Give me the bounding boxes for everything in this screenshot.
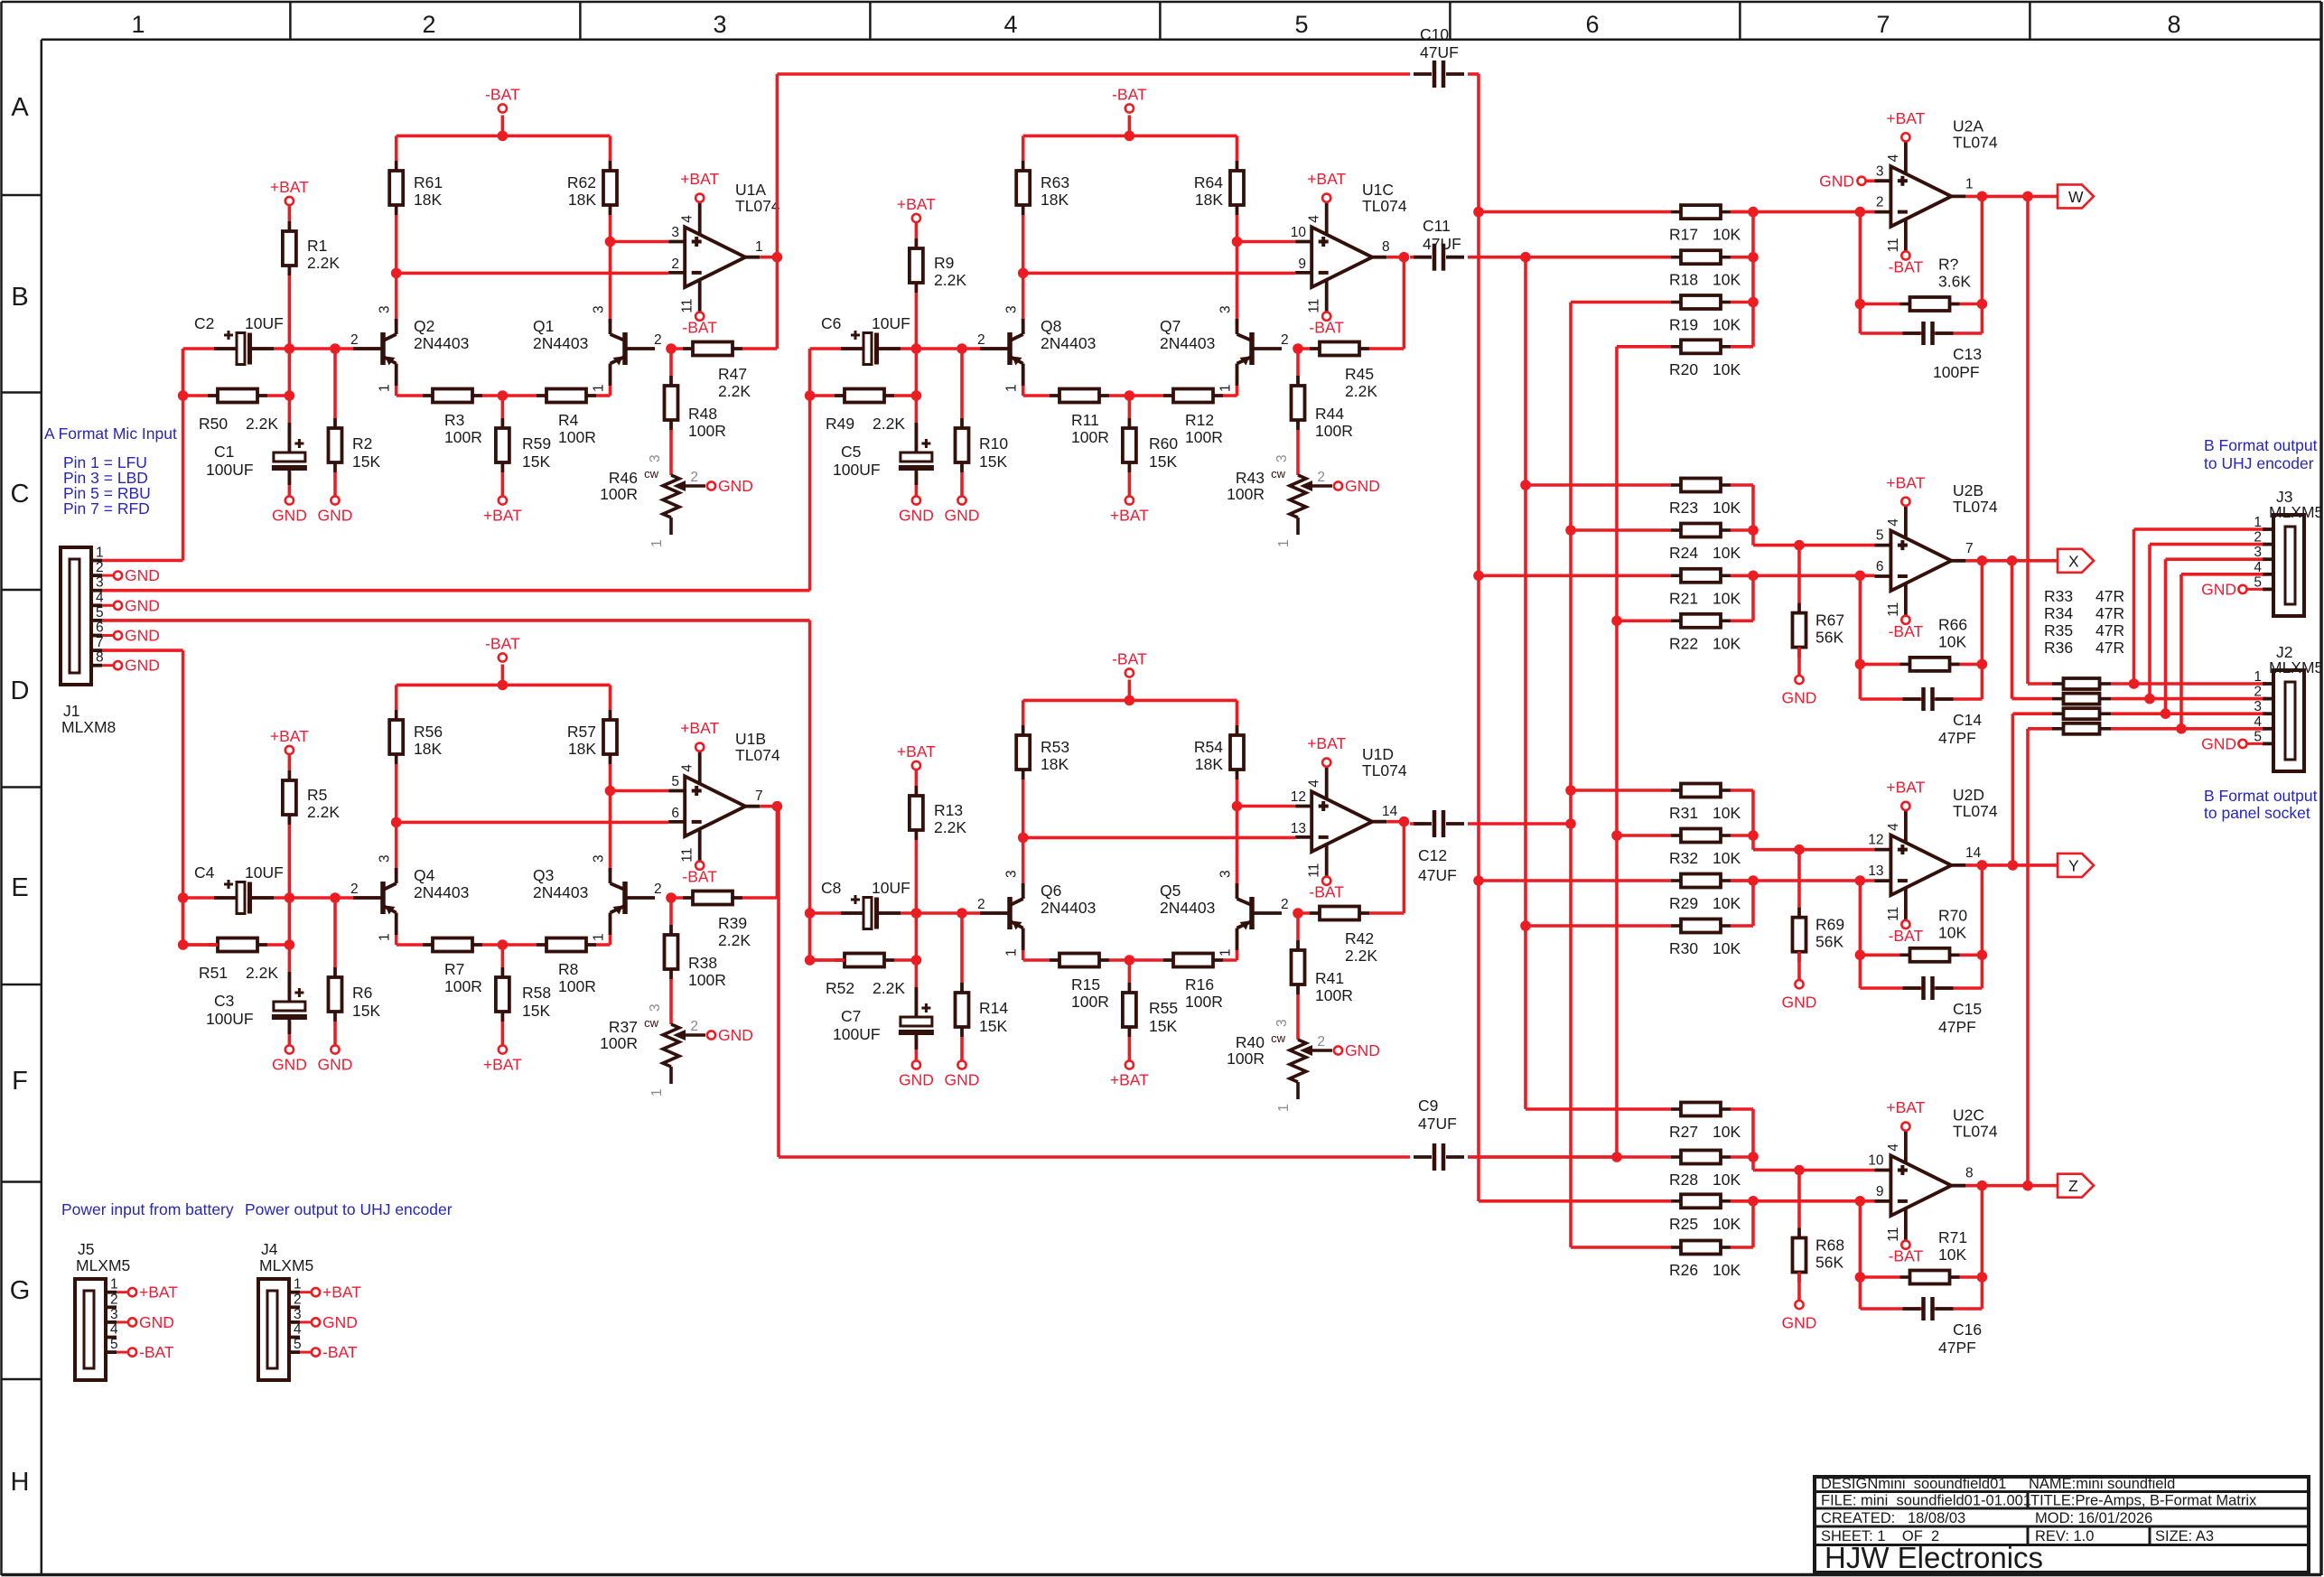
svg-text:6: 6 [671,806,679,821]
svg-text:MLXM8: MLXM8 [61,718,116,736]
svg-text:8: 8 [1382,239,1390,255]
svg-text:1: 1 [2254,515,2262,530]
svg-text:FILE: mini_soundfield01-01.001: FILE: mini_soundfield01-01.001 [1821,1493,2031,1509]
svg-text:GND: GND [1782,994,1817,1012]
svg-text:MOD: 16/01/2026: MOD: 16/01/2026 [2035,1510,2152,1526]
svg-text:100UF: 100UF [833,461,881,479]
svg-text:5: 5 [2254,729,2262,744]
svg-text:B: B [11,283,28,312]
svg-text:1: 1 [649,1088,665,1096]
svg-text:R39: R39 [718,914,747,932]
svg-text:5: 5 [294,1337,302,1352]
svg-text:56K: 56K [1815,933,1843,951]
svg-text:3: 3 [2254,545,2262,560]
svg-text:R5: R5 [307,786,327,804]
svg-text:TL074: TL074 [1953,133,1998,151]
svg-text:3: 3 [1274,454,1290,462]
svg-text:2: 2 [96,560,104,575]
svg-text:R19: R19 [1669,316,1698,334]
svg-text:15K: 15K [1149,1017,1177,1035]
svg-text:10K: 10K [1713,849,1741,867]
svg-text:U2A: U2A [1953,117,1983,135]
svg-text:12: 12 [1291,789,1306,805]
svg-text:+BAT: +BAT [1886,778,1925,796]
svg-text:E: E [11,873,28,902]
svg-text:1: 1 [110,1277,118,1292]
svg-text:10K: 10K [1938,1246,1966,1264]
svg-text:47PF: 47PF [1938,729,1976,747]
svg-text:15K: 15K [352,1002,380,1020]
svg-text:2N4403: 2N4403 [1160,334,1215,352]
svg-text:Q8: Q8 [1041,317,1061,335]
svg-text:C6: C6 [821,314,841,332]
svg-text:R67: R67 [1815,611,1844,630]
svg-text:C7: C7 [841,1007,861,1025]
svg-text:GND: GND [1345,1041,1380,1059]
svg-text:47PF: 47PF [1938,1018,1976,1036]
svg-text:18K: 18K [1195,191,1223,209]
svg-text:GND: GND [899,1071,934,1089]
svg-text:2: 2 [1317,1034,1325,1050]
svg-text:R37: R37 [609,1018,638,1036]
svg-text:2N4403: 2N4403 [533,883,588,901]
svg-text:Q5: Q5 [1160,882,1181,900]
svg-text:10K: 10K [1713,271,1741,289]
svg-text:TITLE:Pre-Amps, B-Format Matri: TITLE:Pre-Amps, B-Format Matrix [2030,1493,2257,1509]
svg-text:10K: 10K [1713,316,1741,334]
svg-text:3: 3 [1218,305,1234,313]
svg-text:-BAT: -BAT [1309,319,1344,337]
svg-text:R44: R44 [1315,405,1344,423]
svg-text:J4: J4 [261,1240,278,1258]
svg-text:+BAT: +BAT [1110,1071,1149,1089]
svg-text:9: 9 [1876,1184,1884,1199]
svg-text:2N4403: 2N4403 [1041,334,1096,352]
svg-text:C: C [11,480,30,509]
svg-text:10K: 10K [1938,632,1966,650]
svg-text:8: 8 [2167,11,2180,38]
svg-text:100R: 100R [1227,485,1265,503]
svg-text:3: 3 [1004,870,1020,878]
svg-text:10K: 10K [1713,1261,1741,1279]
svg-text:R7: R7 [444,960,464,978]
svg-text:2: 2 [1281,897,1289,912]
svg-text:100R: 100R [558,428,596,446]
svg-text:R70: R70 [1938,906,1967,924]
svg-text:Q2: Q2 [414,317,434,335]
svg-text:5: 5 [1294,11,1308,38]
svg-text:X: X [2068,552,2079,570]
svg-text:2.2K: 2.2K [718,931,751,949]
svg-text:TL074: TL074 [1362,197,1407,215]
svg-text:4: 4 [680,764,695,772]
svg-text:2: 2 [977,332,985,348]
svg-text:R4: R4 [558,411,579,429]
svg-text:+BAT: +BAT [680,170,719,188]
svg-text:R31: R31 [1669,804,1698,822]
svg-text:2.2K: 2.2K [246,964,278,982]
svg-text:7: 7 [1965,541,1974,556]
svg-text:R24: R24 [1669,544,1698,562]
svg-text:100R: 100R [1071,993,1109,1011]
svg-text:100R: 100R [600,1034,638,1052]
svg-text:1: 1 [1218,948,1234,956]
svg-text:-BAT: -BAT [1889,257,1924,275]
svg-text:GND: GND [718,1026,753,1044]
svg-text:8: 8 [96,650,104,666]
svg-text:18K: 18K [1195,755,1223,773]
svg-text:GND: GND [125,566,160,584]
svg-text:2.2K: 2.2K [246,415,278,433]
svg-text:TL074: TL074 [735,746,780,764]
svg-text:U2B: U2B [1953,481,1983,499]
svg-text:U1D: U1D [1362,745,1394,763]
svg-text:-BAT: -BAT [1889,1247,1924,1265]
svg-text:2: 2 [1281,332,1289,348]
svg-text:R8: R8 [558,960,578,978]
svg-text:47R: 47R [2095,639,2124,657]
svg-text:1: 1 [1276,1104,1292,1112]
svg-text:B Format output: B Format output [2204,436,2318,454]
svg-text:R34: R34 [2044,604,2073,622]
svg-text:1: 1 [755,239,763,255]
svg-text:R66: R66 [1938,615,1967,633]
svg-text:4: 4 [2254,560,2262,575]
svg-text:-BAT: -BAT [1112,86,1147,104]
svg-text:15K: 15K [522,1002,550,1020]
svg-text:7: 7 [755,788,763,804]
svg-text:C9: C9 [1418,1096,1438,1115]
svg-text:R52: R52 [826,979,854,997]
svg-text:2: 2 [671,257,679,272]
svg-text:U1C: U1C [1362,181,1394,199]
svg-text:10K: 10K [1713,939,1741,957]
svg-text:R68: R68 [1815,1236,1844,1255]
svg-text:56K: 56K [1815,1254,1843,1272]
svg-text:GND: GND [139,1313,174,1331]
svg-text:13: 13 [1868,863,1883,879]
svg-text:F: F [12,1067,28,1096]
svg-text:GND: GND [945,1071,980,1089]
svg-text:R14: R14 [979,999,1008,1017]
svg-text:GND: GND [1819,172,1854,190]
svg-text:10K: 10K [1713,1171,1741,1189]
svg-text:GND: GND [272,507,307,525]
svg-text:2: 2 [422,11,435,38]
svg-text:4: 4 [110,1322,118,1338]
svg-text:7: 7 [1876,11,1890,38]
svg-text:R1: R1 [307,237,327,255]
svg-text:9: 9 [1298,257,1306,272]
svg-text:3: 3 [96,575,104,591]
svg-text:J1: J1 [63,702,79,720]
svg-text:C4: C4 [194,863,215,882]
svg-text:MLXM5: MLXM5 [2269,503,2323,521]
svg-text:R53: R53 [1041,738,1069,756]
svg-text:C14: C14 [1953,711,1982,729]
svg-text:D: D [11,677,30,705]
svg-text:GND: GND [272,1056,307,1074]
svg-text:R27: R27 [1669,1123,1698,1141]
svg-text:+BAT: +BAT [1886,1098,1925,1116]
svg-text:R21: R21 [1669,589,1698,607]
svg-text:2.2K: 2.2K [1345,947,1377,965]
svg-text:A Format Mic Input: A Format Mic Input [44,425,177,443]
svg-text:W: W [2068,188,2084,206]
svg-text:H: H [11,1468,30,1497]
svg-text:R40: R40 [1236,1033,1265,1051]
svg-text:U2C: U2C [1953,1106,1984,1124]
svg-text:R13: R13 [934,801,963,819]
svg-text:-BAT: -BAT [682,319,717,337]
svg-text:2: 2 [294,1292,302,1307]
svg-text:+BAT: +BAT [483,1056,522,1074]
svg-text:-BAT: -BAT [1309,883,1344,901]
svg-text:A: A [11,93,29,122]
svg-text:GND: GND [945,507,980,525]
svg-text:R62: R62 [567,173,596,191]
svg-text:13: 13 [1291,821,1306,836]
svg-text:R36: R36 [2044,639,2073,657]
svg-text:10K: 10K [1713,360,1741,378]
svg-text:C8: C8 [821,879,841,897]
svg-text:R63: R63 [1041,173,1069,191]
svg-text:C15: C15 [1953,1000,1982,1018]
svg-text:Y: Y [2068,856,2079,874]
svg-text:GND: GND [1345,477,1380,495]
svg-text:J5: J5 [78,1240,94,1258]
svg-text:TL074: TL074 [1953,802,1998,820]
svg-text:+BAT: +BAT [322,1283,361,1302]
svg-text:1: 1 [1004,948,1020,956]
svg-text:MLXM5: MLXM5 [2269,658,2323,677]
svg-text:1: 1 [378,933,393,941]
svg-text:C2: C2 [194,314,214,332]
svg-text:Power input from battery: Power input from battery [61,1200,234,1218]
svg-text:+BAT: +BAT [1307,170,1346,188]
svg-text:4: 4 [1886,154,1901,162]
svg-text:5: 5 [96,605,104,621]
svg-text:CREATED: 18/08/03: CREATED: 18/08/03 [1821,1510,1965,1526]
svg-text:-BAT: -BAT [1889,927,1924,945]
svg-text:2: 2 [2254,685,2262,700]
svg-text:10K: 10K [1713,634,1741,652]
svg-text:15K: 15K [979,1017,1007,1035]
svg-text:+BAT: +BAT [897,195,936,213]
svg-text:6: 6 [96,621,104,636]
svg-text:10: 10 [1291,225,1307,240]
svg-text:2: 2 [690,1019,698,1034]
svg-text:1: 1 [96,546,104,561]
svg-text:100R: 100R [688,422,726,440]
svg-text:3: 3 [671,225,679,240]
svg-text:Z: Z [2068,1177,2078,1195]
svg-text:2.2K: 2.2K [718,382,751,400]
svg-text:47UF: 47UF [1418,1115,1457,1133]
svg-text:1: 1 [1004,384,1020,392]
svg-text:18K: 18K [414,191,442,209]
svg-text:2: 2 [1876,195,1884,210]
svg-text:3: 3 [110,1307,118,1322]
svg-text:-BAT: -BAT [485,635,520,653]
svg-text:R69: R69 [1815,916,1844,934]
svg-text:GND: GND [322,1313,358,1331]
svg-text:100R: 100R [558,977,596,995]
svg-text:R35: R35 [2044,621,2073,639]
svg-text:R43: R43 [1236,469,1265,487]
svg-text:100R: 100R [444,977,482,995]
svg-text:R15: R15 [1071,975,1100,994]
svg-text:C13: C13 [1953,345,1982,363]
svg-text:R41: R41 [1315,969,1344,987]
svg-text:2: 2 [350,882,359,897]
svg-text:GND: GND [899,507,934,525]
svg-text:-BAT: -BAT [322,1343,358,1361]
svg-text:47R: 47R [2095,621,2124,639]
svg-text:GND: GND [125,596,160,614]
svg-text:R45: R45 [1345,365,1374,383]
svg-text:100UF: 100UF [206,1010,254,1028]
svg-text:100R: 100R [600,485,638,503]
svg-text:R28: R28 [1669,1171,1698,1189]
svg-text:47PF: 47PF [1938,1339,1976,1357]
svg-text:R61: R61 [414,173,443,191]
svg-text:2: 2 [654,332,662,348]
svg-text:15K: 15K [522,453,550,471]
svg-text:10K: 10K [1713,804,1741,822]
svg-text:4: 4 [1003,11,1017,38]
svg-text:10K: 10K [1938,923,1966,941]
svg-text:4: 4 [1886,1143,1901,1152]
svg-text:10UF: 10UF [872,879,910,897]
svg-text:TL074: TL074 [1953,498,1998,516]
svg-text:1: 1 [294,1277,302,1292]
svg-text:100R: 100R [1315,422,1353,440]
svg-text:10UF: 10UF [245,314,284,332]
svg-text:3: 3 [1274,1019,1290,1027]
svg-text:100PF: 100PF [1933,363,1980,381]
svg-text:R47: R47 [718,365,747,383]
svg-text:B Format output: B Format output [2204,787,2318,805]
svg-text:2: 2 [2254,530,2262,546]
svg-text:G: G [10,1276,31,1305]
svg-text:C3: C3 [214,992,234,1010]
svg-text:100R: 100R [1185,993,1223,1011]
svg-text:4: 4 [680,215,695,223]
svg-text:11: 11 [1307,863,1322,878]
svg-text:10K: 10K [1713,544,1741,562]
svg-text:C10: C10 [1420,25,1449,43]
svg-text:6: 6 [1876,559,1884,574]
svg-text:GND: GND [318,507,353,525]
svg-text:2: 2 [350,332,359,348]
svg-text:47UF: 47UF [1423,235,1461,253]
svg-text:C11: C11 [1423,217,1451,235]
svg-text:3: 3 [1004,305,1020,313]
svg-text:R17: R17 [1669,226,1698,244]
svg-text:4: 4 [1886,823,1901,831]
svg-text:NAME:mini soundfield: NAME:mini soundfield [2029,1476,2175,1492]
svg-text:TL074: TL074 [1953,1123,1998,1141]
svg-text:8: 8 [1965,1166,1974,1181]
svg-text:47UF: 47UF [1418,866,1457,884]
svg-text:3: 3 [378,305,393,313]
svg-text:2.2K: 2.2K [1345,382,1377,400]
svg-text:R12: R12 [1185,411,1214,429]
svg-text:+BAT: +BAT [270,178,309,196]
svg-text:R71: R71 [1938,1228,1967,1246]
svg-text:R2: R2 [352,434,372,453]
svg-text:+BAT: +BAT [270,727,309,745]
svg-text:11: 11 [1886,238,1901,252]
svg-text:47R: 47R [2095,604,2124,622]
svg-text:2N4403: 2N4403 [1041,899,1096,917]
svg-text:47UF: 47UF [1420,43,1459,61]
svg-text:10: 10 [1868,1153,1884,1169]
svg-text:GND: GND [125,657,160,675]
svg-text:C12: C12 [1418,846,1447,864]
svg-text:-BAT: -BAT [682,868,717,886]
svg-text:1: 1 [1965,176,1974,191]
svg-text:10K: 10K [1713,589,1741,607]
svg-text:C16: C16 [1953,1320,1982,1339]
svg-text:Q3: Q3 [533,866,554,884]
svg-text:2: 2 [110,1292,118,1307]
svg-text:100R: 100R [688,971,726,989]
svg-text:R11: R11 [1071,411,1099,429]
svg-text:+BAT: +BAT [1886,473,1925,491]
svg-text:R60: R60 [1149,434,1178,453]
svg-text:56K: 56K [1815,629,1843,647]
svg-text:GND: GND [1782,1314,1817,1332]
svg-text:R29: R29 [1669,894,1698,912]
svg-text:C5: C5 [841,443,861,461]
svg-text:10K: 10K [1713,1123,1741,1141]
svg-text:R38: R38 [688,954,717,972]
svg-text:-BAT: -BAT [485,86,520,104]
svg-text:R48: R48 [688,405,717,423]
svg-text:10K: 10K [1713,1215,1741,1233]
svg-text:-BAT: -BAT [1112,650,1147,668]
svg-text:+BAT: +BAT [1307,734,1346,752]
svg-text:11: 11 [1886,907,1901,921]
svg-text:3.6K: 3.6K [1938,273,1971,291]
svg-text:2: 2 [690,470,698,485]
svg-text:R56: R56 [414,723,443,741]
svg-text:1: 1 [649,539,665,547]
svg-text:3: 3 [592,854,607,863]
svg-text:R33: R33 [2044,587,2073,605]
svg-text:R51: R51 [199,964,228,982]
svg-text:R23: R23 [1669,499,1698,517]
svg-text:2: 2 [977,897,985,912]
svg-text:3: 3 [648,454,663,462]
svg-text:+BAT: +BAT [897,742,936,761]
svg-text:3: 3 [713,11,726,38]
svg-text:R59: R59 [522,434,551,453]
svg-text:-BAT: -BAT [139,1343,174,1361]
svg-text:R3: R3 [444,411,464,429]
svg-text:+BAT: +BAT [680,719,719,737]
svg-text:15K: 15K [979,453,1007,471]
svg-text:MLXM5: MLXM5 [259,1256,313,1274]
svg-text:3: 3 [1218,870,1234,878]
svg-text:2: 2 [654,882,662,897]
svg-text:3: 3 [2254,699,2262,714]
svg-text:1: 1 [1276,539,1292,547]
svg-text:15K: 15K [1149,453,1177,471]
svg-text:14: 14 [1382,804,1398,819]
